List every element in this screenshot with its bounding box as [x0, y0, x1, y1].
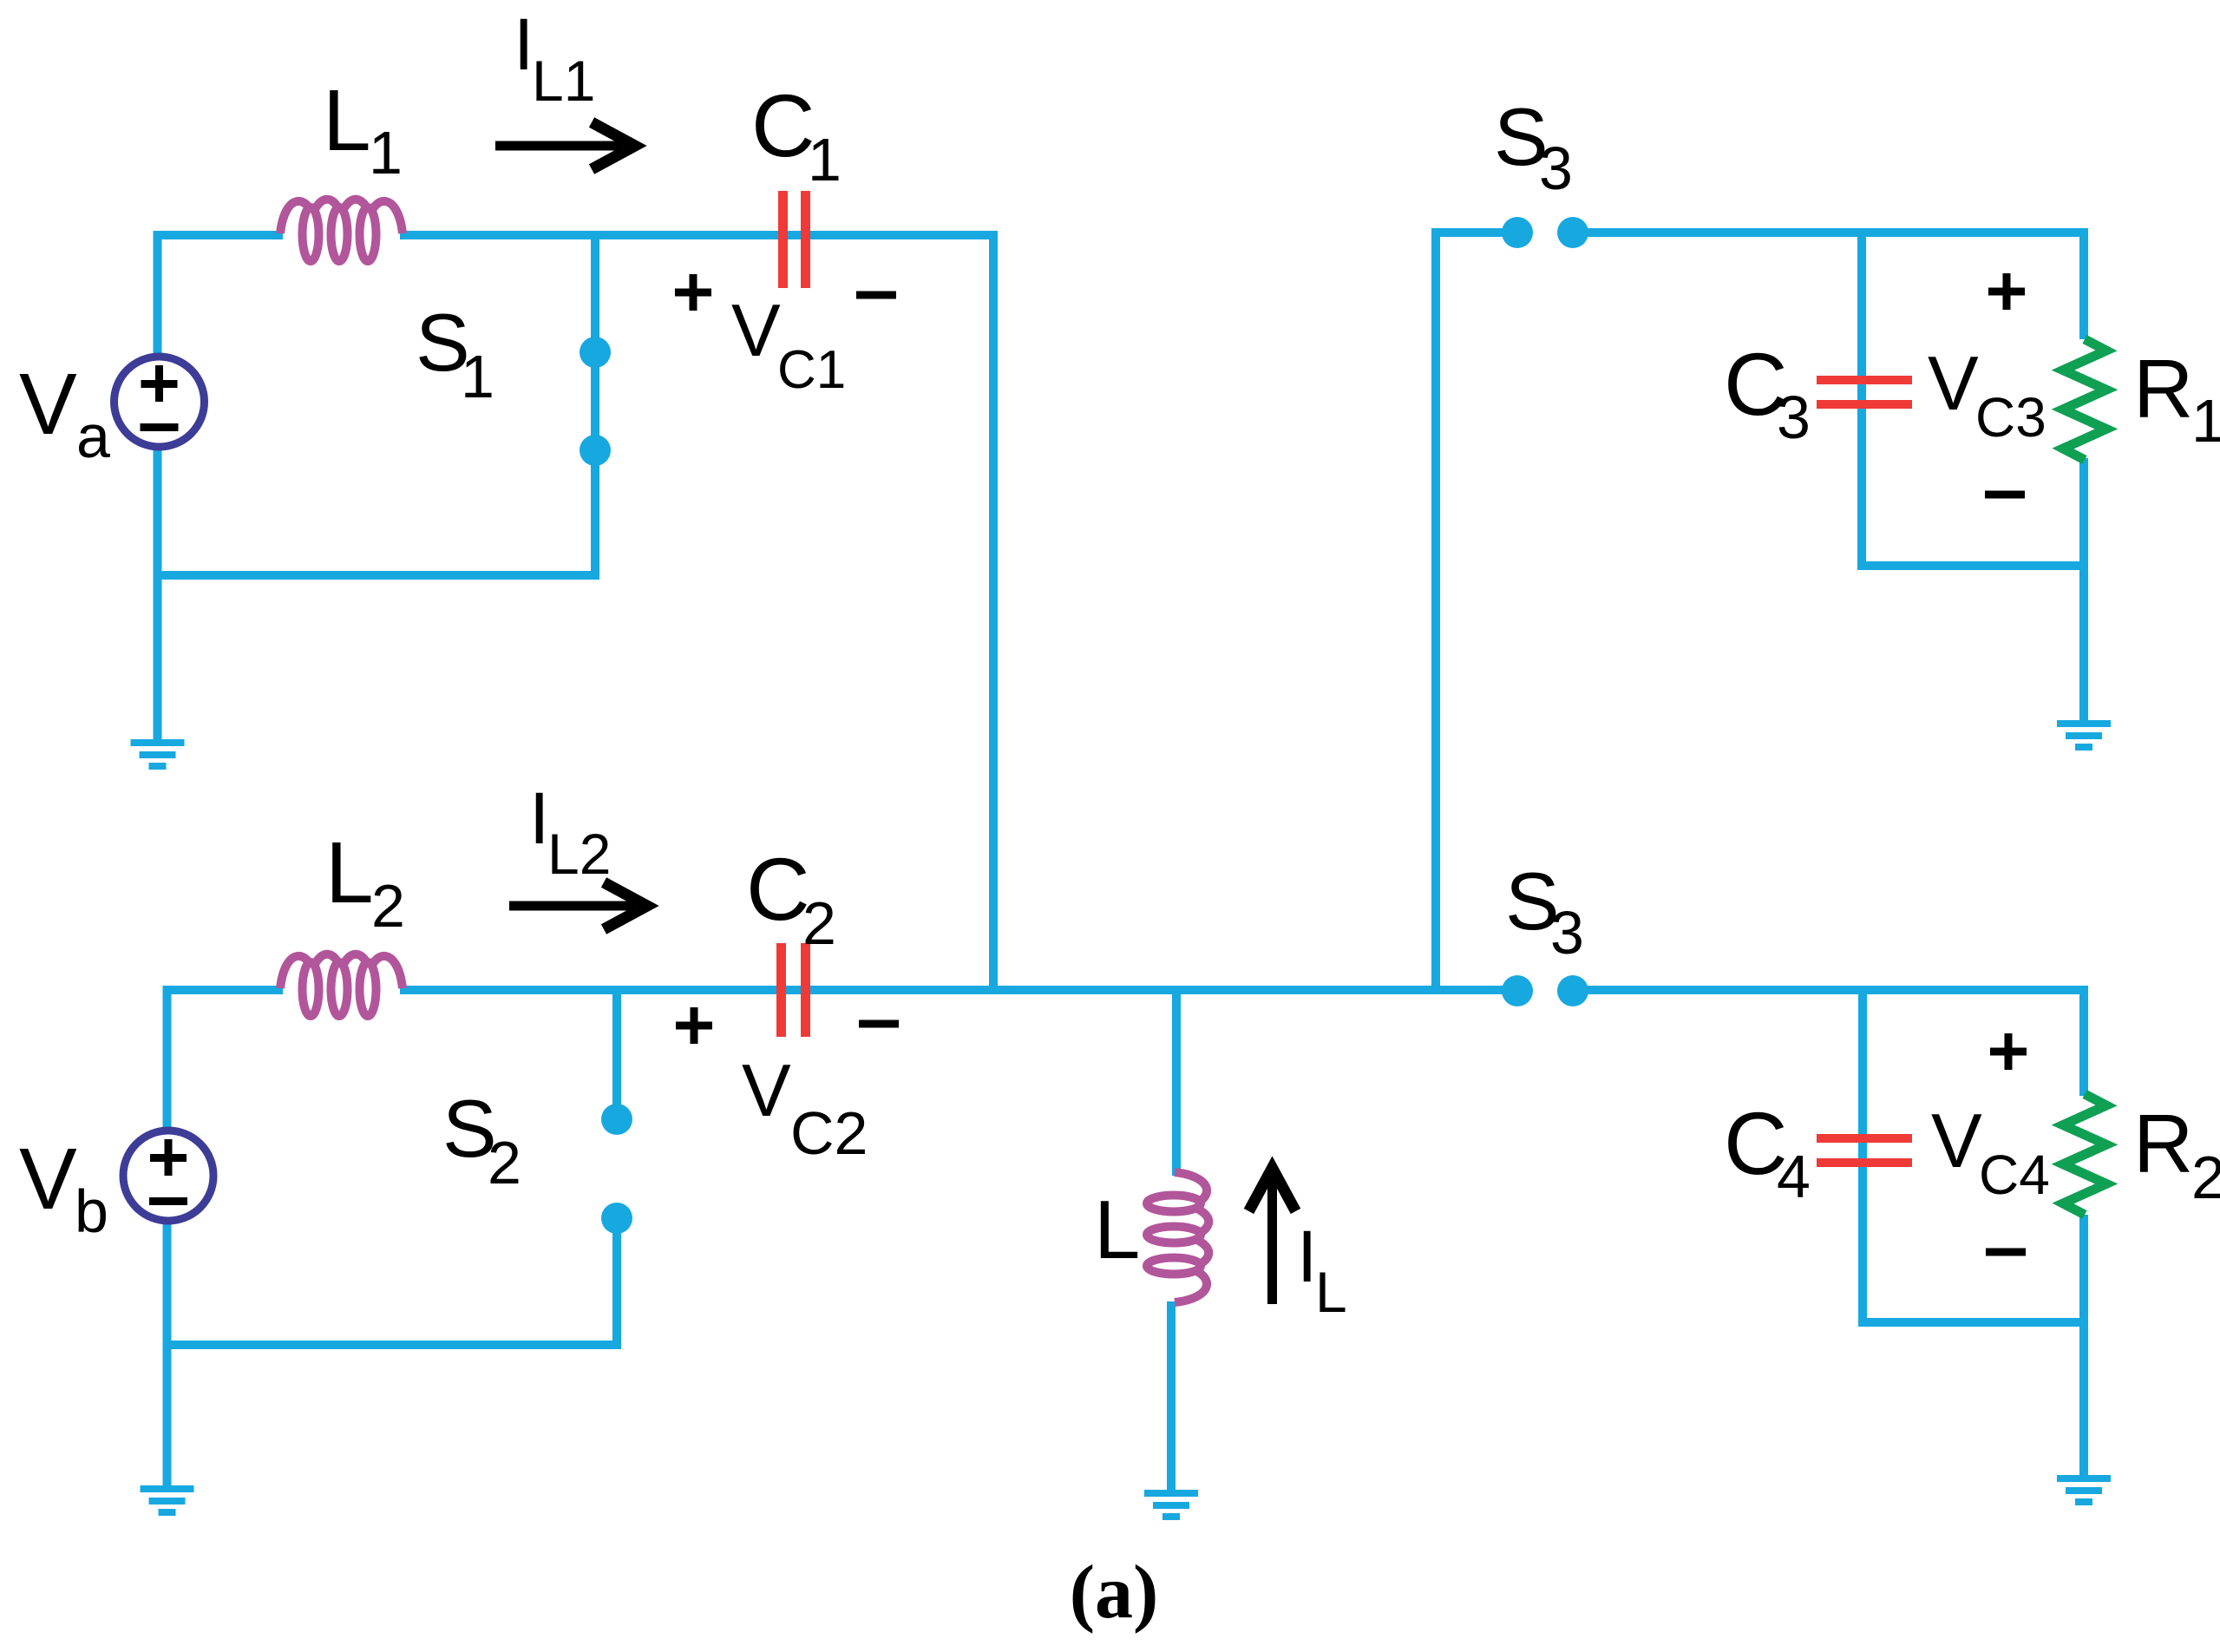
svg-text:1: 1	[369, 119, 403, 187]
ground under R2	[2057, 1475, 2111, 1482]
svg-text:I: I	[514, 3, 534, 85]
resistor R2	[2063, 1094, 2106, 1215]
capacitor C2	[776, 943, 786, 1037]
wire: top S3 right to corner, down to R1	[1588, 233, 2084, 339]
ground under Va	[131, 739, 185, 746]
switch S3 (bottom) contact dots	[1502, 975, 1533, 1006]
switch S3 (top) contact dots	[1502, 217, 1533, 248]
svg-text:a: a	[76, 403, 110, 470]
svg-text:C3: C3	[1975, 386, 2046, 449]
minus of V_C3	[1985, 491, 2025, 499]
svg-text:L: L	[323, 72, 371, 169]
svg-text:V: V	[19, 356, 77, 453]
switch S2 contact dots	[601, 1104, 632, 1135]
capacitor C1	[778, 191, 788, 288]
wire: C4 branch vertical + C4 loop bottom	[1863, 990, 2084, 1322]
wire: S1 branch vertical + S1 loop bottom	[158, 235, 596, 575]
ground under R1	[2057, 720, 2111, 727]
wire: Va left vertical + top-left horizontal	[158, 235, 284, 739]
wire: middle horizontal right of S3, corner down to R2	[1588, 990, 2084, 1096]
plus of V_C3	[1988, 288, 2025, 296]
svg-text:3: 3	[1777, 383, 1811, 451]
svg-text:C1: C1	[777, 340, 846, 400]
svg-text:C4: C4	[1979, 1144, 2050, 1206]
wire: S2 branch lower + S2 loop bottom	[167, 1230, 618, 1345]
svg-text:V: V	[1928, 340, 1979, 426]
svg-text:L: L	[325, 824, 374, 921]
svg-text:I: I	[529, 777, 549, 859]
wire: L branch vertical lower	[1167, 1301, 1175, 1490]
resistor R1	[2063, 339, 2106, 460]
current arrow I_L2	[509, 901, 635, 911]
svg-text:C2: C2	[790, 1099, 868, 1167]
svg-text:V: V	[742, 1050, 791, 1132]
wire: middle horizontal (L2 through C2 to S3 dot)	[400, 986, 1503, 994]
current arrow I_L (up)	[1267, 1180, 1277, 1304]
switch S1 contact dots	[580, 337, 611, 368]
svg-text:1: 1	[808, 126, 842, 193]
wire: R1 right vertical lower to ground	[2079, 458, 2088, 720]
svg-text:2: 2	[802, 889, 836, 957]
svg-text:R: R	[2133, 1098, 2193, 1190]
svg-text:L: L	[1094, 1183, 1140, 1276]
inductor L1	[280, 201, 317, 233]
svg-text:1: 1	[461, 343, 494, 410]
svg-text:2: 2	[371, 872, 405, 940]
svg-text:R: R	[2133, 343, 2193, 436]
wire: L1 to C1, corner down to middle node	[400, 235, 993, 990]
minus of V_C2	[859, 1020, 899, 1028]
svg-text:2: 2	[2191, 1144, 2220, 1211]
svg-text:L1: L1	[532, 49, 595, 113]
inductor L2	[280, 956, 317, 988]
svg-text:4: 4	[1777, 1143, 1811, 1210]
capacitor C4	[1817, 1134, 1912, 1143]
voltage source Vb	[123, 1131, 213, 1221]
svg-text:V: V	[1931, 1098, 1982, 1183]
svg-text:b: b	[75, 1177, 108, 1245]
wire: R2 right vertical lower to ground	[2079, 1215, 2088, 1475]
svg-text:2: 2	[488, 1129, 521, 1196]
svg-text:1: 1	[2191, 387, 2220, 455]
ground under L	[1144, 1490, 1198, 1497]
svg-text:L2: L2	[547, 822, 611, 886]
svg-text:C: C	[751, 76, 815, 175]
plus of V_C1	[675, 289, 711, 297]
svg-text:C: C	[746, 840, 810, 939]
wire: L branch vertical upper	[1172, 990, 1181, 1176]
plus of V_C4	[1990, 1048, 2027, 1056]
capacitor C3	[1817, 376, 1912, 384]
minus of V_C1	[856, 292, 896, 299]
svg-text:V: V	[19, 1131, 77, 1228]
minus of V_C4	[1986, 1249, 2026, 1256]
svg-text:3: 3	[1539, 134, 1573, 202]
wire: S2 branch upper	[612, 990, 621, 1107]
svg-text:3: 3	[1550, 899, 1584, 967]
ground under Vb	[141, 1485, 194, 1492]
svg-text:I: I	[1297, 1216, 1317, 1297]
inductor L (vertical)	[1175, 1172, 1207, 1209]
svg-text:V: V	[731, 290, 781, 372]
wire: Vb left vertical + middle horizontal left part	[167, 990, 284, 1485]
wire: C3 branch vertical + C3 loop bottom	[1862, 233, 2084, 566]
wire: top S3 left stub + S3 vertical down to bottom S3	[1436, 233, 1503, 990]
svg-text:L: L	[1315, 1260, 1347, 1324]
svg-text:(a): (a)	[1070, 1550, 1159, 1635]
voltage source Va	[115, 357, 205, 447]
plus of V_C2	[676, 1022, 712, 1030]
current arrow I_L1	[495, 141, 623, 151]
